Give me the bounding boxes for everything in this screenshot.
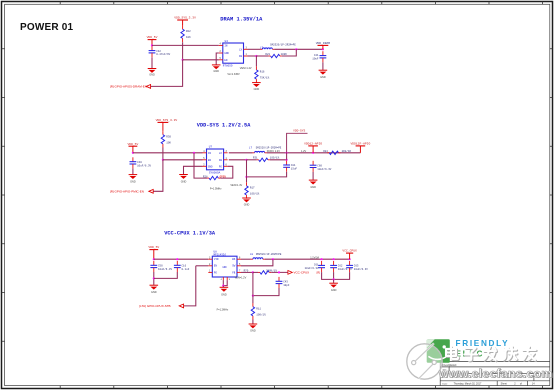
wire EN rail sec3 bbox=[196, 265, 209, 267]
wire U7 GND pin to ground bbox=[184, 166, 203, 174]
svg-text:PG: PG bbox=[219, 165, 223, 168]
svg-text:GND: GND bbox=[223, 266, 228, 269]
svg-text:IN: IN bbox=[208, 152, 212, 155]
svg-text:VCC_CPUX: VCC_CPUX bbox=[342, 250, 357, 253]
inductor L3 2.2uH bbox=[260, 48, 274, 49]
wire FB pin to divider node bbox=[248, 55, 257, 57]
svg-text:GND: GND bbox=[254, 88, 260, 91]
svg-text:VDD_SYS_3.3V: VDD_SYS_3.3V bbox=[156, 119, 178, 122]
U4 pin LX (3) bbox=[244, 48, 248, 50]
resistor R22 10K pullup bbox=[181, 26, 191, 42]
U7 pin PG (6) bbox=[224, 165, 228, 167]
svg-text:10K: 10K bbox=[186, 36, 191, 39]
resistor R24 2R2 bbox=[327, 151, 340, 154]
U8 pin PAD (9) bbox=[226, 277, 228, 280]
svg-text:VDD_DRAM: VDD_DRAM bbox=[316, 42, 331, 45]
watermark logo circle bbox=[407, 343, 442, 379]
U8 pin PG (1) bbox=[208, 271, 212, 273]
junction R31/C81 node bbox=[286, 159, 288, 161]
power symbol VDD12-APIO (C60) bbox=[304, 143, 322, 153]
junction FB sense tap sec1 bbox=[295, 48, 297, 50]
svg-text:FRIENDLY: FRIENDLY bbox=[456, 339, 510, 348]
wire R28 to PG pin bbox=[220, 166, 233, 178]
U8 pin VIN (3) bbox=[208, 258, 212, 260]
svg-text:IN: IN bbox=[224, 44, 228, 47]
ground below C50 bbox=[150, 285, 159, 294]
resistor R31 100 feedback bbox=[257, 158, 270, 161]
U4 pin FB (1) bbox=[244, 55, 248, 57]
svg-text:VDD-SYS: VDD-SYS bbox=[293, 130, 305, 133]
power symbol VDD_5V (sec1) bbox=[147, 36, 158, 45]
svg-text:EN: EN bbox=[224, 59, 228, 62]
wire FB rail sec2 bbox=[229, 159, 247, 161]
power symbol VDD12F-APIO bbox=[350, 143, 370, 153]
capacitor C50 10uF input bbox=[150, 261, 172, 272]
FriendlyELEC green logo square bbox=[427, 339, 450, 363]
watermark chinese characters bbox=[446, 347, 537, 361]
capacitor C40 10uF input bbox=[130, 157, 152, 168]
port GPIO-APIO-SYS enable bbox=[110, 189, 153, 193]
junction C16 tap bbox=[176, 258, 178, 260]
svg-text:GND: GND bbox=[208, 165, 213, 168]
wire inductor to output sec2 bbox=[267, 152, 361, 154]
svg-text:VDD_SYS_3.3V: VDD_SYS_3.3V bbox=[174, 17, 196, 20]
title block lines bbox=[440, 361, 550, 385]
wire C42 to GND bbox=[151, 57, 153, 68]
svg-text:EN: EN bbox=[214, 265, 218, 268]
wire FB node to R31 bbox=[247, 159, 257, 161]
ground below R11 bbox=[249, 324, 258, 332]
svg-text:DRAM 1.35V/1A: DRAM 1.35V/1A bbox=[220, 17, 263, 23]
wire C50 to GND bbox=[153, 272, 155, 285]
wire FB node to R21 bbox=[256, 55, 268, 57]
wire R30 bottom to EN node sec2 bbox=[162, 148, 164, 160]
junction SW sense tap bbox=[272, 258, 274, 260]
wire R11 to gnd bbox=[252, 320, 254, 324]
junction divider mid sec3 bbox=[252, 295, 254, 297]
svg-text:VDD-SYS 1.2V/2.5A: VDD-SYS 1.2V/2.5A bbox=[197, 122, 251, 128]
U8 pin FB (7) bbox=[237, 271, 241, 273]
wire C62 bottom bbox=[333, 272, 335, 279]
junction FB node sec1 bbox=[255, 55, 257, 57]
svg-text:Date:: Date: bbox=[442, 383, 448, 386]
wire inductor to output node sec3 bbox=[265, 258, 350, 260]
U4 pin GND (2) bbox=[219, 52, 223, 54]
ground below C60 bbox=[309, 180, 318, 189]
resistor R21 100K feedback bbox=[265, 53, 287, 58]
inductor L7 2.2uH bbox=[253, 151, 267, 152]
capacitor C81 15uF feedforward bbox=[283, 161, 297, 172]
wire EN rail sec2 bbox=[163, 159, 203, 161]
svg-text:15uF: 15uF bbox=[291, 168, 298, 171]
capacitor C62 10uF output bbox=[330, 261, 352, 272]
wire U8 ground node down bbox=[222, 286, 224, 288]
svg-text:1.1V/3A: 1.1V/3A bbox=[310, 257, 319, 260]
svg-text:VDD_5V: VDD_5V bbox=[148, 246, 159, 249]
svg-text:R24: R24 bbox=[323, 150, 328, 153]
ground below C41 bbox=[319, 70, 328, 79]
wire LX to inductor sec2 bbox=[229, 152, 253, 154]
wire SW to inductor sec3 bbox=[241, 258, 251, 260]
U8 pin names bbox=[214, 258, 236, 274]
svg-text:[R] GPIO-APIO-PMIC-EN: [R] GPIO-APIO-PMIC-EN bbox=[110, 189, 144, 193]
ground below U4 bbox=[212, 65, 221, 73]
svg-text:GND: GND bbox=[310, 186, 316, 189]
svg-text:F=1.2MHz: F=1.2MHz bbox=[217, 309, 229, 312]
svg-text:0.47uF/6V: 0.47uF/6V bbox=[156, 52, 170, 56]
ground below R16 bbox=[252, 83, 261, 91]
wire R31 to output tap bbox=[270, 159, 287, 161]
U7 pin FB (1) bbox=[224, 159, 228, 161]
svg-text:FB: FB bbox=[239, 55, 243, 58]
junction EN node sec1 bbox=[182, 59, 184, 61]
svg-text:SW: SW bbox=[232, 265, 236, 268]
resistor R16 75K bbox=[255, 66, 270, 82]
junction C62 tap bbox=[333, 258, 335, 260]
svg-text:GND: GND bbox=[331, 289, 337, 292]
svg-text:10uF: 10uF bbox=[312, 57, 319, 60]
svg-text:VDD_5V: VDD_5V bbox=[147, 36, 158, 39]
svg-text:GND: GND bbox=[224, 52, 229, 55]
wire C81 bottom to divider bbox=[247, 172, 287, 177]
wire output tap vertical bbox=[286, 153, 288, 160]
ground below output caps bbox=[329, 283, 338, 292]
svg-text:of: of bbox=[520, 383, 522, 386]
U8 pin EN (2) bbox=[208, 265, 212, 267]
capacitor C60 10uF output bbox=[310, 161, 332, 172]
svg-text:10pF: 10pF bbox=[283, 284, 290, 287]
wire U8 pad pin join bbox=[223, 280, 227, 286]
svg-text:L7: L7 bbox=[249, 147, 253, 150]
svg-text:2R2/1R: 2R2/1R bbox=[342, 149, 352, 153]
junction VDD_5V / IN wire sec2 bbox=[132, 152, 134, 154]
ground below U7 bbox=[179, 175, 188, 184]
svg-text:VEN=1.4V: VEN=1.4V bbox=[230, 184, 242, 187]
junction R28 pullup tap bbox=[193, 152, 195, 154]
capacitor C41 10uF output bbox=[312, 51, 326, 62]
svg-text:RT8059: RT8059 bbox=[223, 64, 233, 67]
wire FB node down to R16 bbox=[255, 56, 257, 66]
svg-text:FB: FB bbox=[232, 271, 236, 274]
U7 pin GND (2) bbox=[203, 165, 207, 167]
power symbol VDD_5V (sec3) bbox=[148, 246, 159, 259]
junction divider mid node bbox=[245, 176, 247, 178]
svg-text:GND: GND bbox=[320, 76, 326, 79]
wire IN rail sec2 bbox=[133, 152, 203, 154]
svg-text:C41: C41 bbox=[314, 54, 319, 57]
wire FB node down bbox=[246, 160, 248, 177]
svg-text:R70: R70 bbox=[244, 270, 249, 273]
junction C60 tap bbox=[312, 152, 314, 154]
svg-text:VDD12F-APIO: VDD12F-APIO bbox=[350, 143, 370, 146]
svg-text:VEN=1.4V: VEN=1.4V bbox=[240, 67, 252, 70]
wire U8 ground pins join bbox=[222, 280, 224, 286]
capacitor C16 0.1uF input bbox=[174, 261, 190, 272]
wire inductor to output node sec1 bbox=[274, 48, 323, 50]
U7 pin names bbox=[208, 152, 222, 168]
svg-text:[LTA] GPIO-CPUX-STB: [LTA] GPIO-CPUX-STB bbox=[139, 304, 170, 308]
svg-text:GND: GND bbox=[130, 181, 136, 184]
svg-text:Thursday, March 02, 2017: Thursday, March 02, 2017 bbox=[454, 383, 482, 386]
regulator U7 SY8089A body bbox=[207, 149, 224, 170]
U7 pin LX (3) bbox=[224, 152, 228, 154]
power symbol VDD_DRAM bbox=[316, 42, 331, 49]
resistor R70 200K feedback bbox=[258, 271, 271, 274]
wire C60 to GND bbox=[312, 172, 314, 180]
inductor L8 2.2uH bbox=[251, 258, 265, 259]
wire EN rail sec1 bbox=[183, 59, 219, 61]
resistor R30 10K pullup bbox=[161, 131, 171, 147]
U4 pin names bbox=[224, 44, 242, 61]
U4 pin IN (4) bbox=[219, 44, 223, 46]
wire LX to inductor bbox=[248, 48, 261, 50]
svg-text:POWER 01: POWER 01 bbox=[20, 22, 74, 33]
resistor R17 100 1% bbox=[245, 182, 260, 198]
power symbol VDD_5V (sec2) bbox=[127, 143, 138, 153]
svg-text:100/1%: 100/1% bbox=[270, 155, 280, 159]
ground below C42 bbox=[148, 69, 157, 77]
junction VDD-SYS label tap bbox=[286, 152, 288, 154]
wire FB node to R70 bbox=[253, 271, 258, 273]
resistor R28 open pullup bbox=[207, 176, 220, 179]
U7 pin EN (5) bbox=[203, 159, 207, 161]
svg-text:R17: R17 bbox=[250, 186, 255, 189]
svg-text:Sheet: Sheet bbox=[501, 383, 508, 386]
wire EN node down to port sec2 bbox=[153, 160, 163, 192]
svg-text:10K: 10K bbox=[166, 141, 171, 144]
capacitor C42 0.47uF bbox=[149, 46, 171, 57]
svg-text:VCC-CPUX 1.1V/3A: VCC-CPUX 1.1V/3A bbox=[164, 231, 216, 237]
title block texts bbox=[442, 364, 541, 386]
junction C43 tap bbox=[278, 271, 280, 273]
svg-text:LX: LX bbox=[219, 152, 223, 155]
svg-text:R28: R28 bbox=[203, 175, 208, 178]
wire divider to R11 bbox=[252, 296, 254, 304]
svg-text:10uF/6.3V: 10uF/6.3V bbox=[354, 267, 368, 271]
svg-text:GND: GND bbox=[221, 294, 227, 297]
wire FB rail sec3 bbox=[241, 271, 253, 273]
svg-text:LX: LX bbox=[239, 48, 243, 51]
svg-text:0.1uF: 0.1uF bbox=[182, 268, 190, 271]
svg-text:EN: EN bbox=[208, 159, 212, 162]
U7 pin IN (4) bbox=[203, 152, 207, 154]
svg-text:DM2520/1P-2R2M=PE: DM2520/1P-2R2M=PE bbox=[256, 253, 282, 256]
wire EN down to port sec3 bbox=[184, 266, 196, 306]
junction VDD_5V / IN wire sec3 bbox=[153, 258, 155, 260]
wire output caps bottom rail bbox=[322, 272, 350, 279]
wire divider node to R17 bbox=[246, 177, 248, 182]
net label VDD-SYS with stub bbox=[287, 130, 308, 153]
junction output node sec1 bbox=[322, 48, 324, 50]
wire C40 to GND bbox=[132, 168, 134, 174]
svg-text:75K/1%: 75K/1% bbox=[260, 76, 270, 80]
svg-text:10uF/6.3V: 10uF/6.3V bbox=[158, 267, 172, 271]
svg-text:100/1%: 100/1% bbox=[250, 191, 260, 195]
U8 pin GND (4) bbox=[222, 277, 224, 280]
svg-text:GND: GND bbox=[250, 329, 256, 332]
wire IN rail sec1 bbox=[152, 44, 219, 46]
svg-text:F=1.5MHz: F=1.5MHz bbox=[210, 187, 222, 190]
svg-text:100/1%: 100/1% bbox=[256, 312, 266, 316]
ground below C40 bbox=[129, 175, 138, 184]
svg-text:VDD12-APIO: VDD12-APIO bbox=[304, 143, 322, 146]
svg-text:R16: R16 bbox=[260, 71, 265, 74]
junction FB node sec3 bbox=[252, 271, 254, 273]
wire U4 GND pin to ground bbox=[216, 53, 219, 65]
port VCC-CPUX output sense bbox=[288, 271, 320, 275]
wire R21 to sense tap bbox=[282, 49, 297, 56]
wire C41 to GND bbox=[322, 62, 324, 70]
ground below R17 bbox=[242, 198, 251, 206]
junction C63/power tap bbox=[349, 258, 351, 260]
svg-text:R30: R30 bbox=[166, 135, 171, 138]
svg-text:VCC-CPUX: VCC-CPUX bbox=[294, 271, 310, 275]
svg-text:U7: U7 bbox=[209, 145, 213, 148]
U8 pin VOS (5) bbox=[237, 265, 241, 267]
wire EN node down to port bbox=[151, 60, 183, 87]
svg-text:C61: C61 bbox=[314, 264, 319, 267]
power symbol VCC_CPUX bbox=[342, 250, 357, 260]
wire R70 to output sense bbox=[271, 271, 288, 273]
wire C43 bottom to divider bbox=[253, 288, 279, 296]
wire IN rail sec3 bbox=[154, 258, 209, 260]
regulator U8 MP2143DJ body bbox=[212, 256, 237, 277]
svg-text:DM2520/1P-2R2M=PE: DM2520/1P-2R2M=PE bbox=[270, 43, 296, 46]
svg-text:VEN=1.2V: VEN=1.2V bbox=[235, 276, 247, 279]
svg-text:GND: GND bbox=[244, 203, 250, 206]
svg-text:10uF/6.3V: 10uF/6.3V bbox=[137, 163, 151, 167]
svg-text:www.elecfans.com: www.elecfans.com bbox=[438, 366, 553, 380]
svg-text:FB: FB bbox=[219, 159, 223, 162]
capacitor C43 feedforward bbox=[276, 277, 290, 288]
svg-text:[R] GPIO-APIO5-DRAM-EN: [R] GPIO-APIO5-DRAM-EN bbox=[110, 85, 147, 89]
U4 pin EN (5) bbox=[219, 59, 223, 61]
port GPIO-CPUX-STB enable bbox=[139, 304, 183, 308]
wire caps gnd node down bbox=[333, 279, 335, 283]
svg-text:VDD_5V: VDD_5V bbox=[127, 143, 138, 146]
ground below U8 bbox=[220, 287, 229, 296]
svg-text:BS: BS bbox=[232, 258, 236, 261]
capacitor C61 10uF output bbox=[305, 261, 325, 272]
svg-text:GND: GND bbox=[181, 180, 187, 183]
svg-text:R22: R22 bbox=[186, 30, 191, 33]
capacitor C63 10uF output bbox=[346, 261, 368, 272]
svg-text:DCDC 1.2V: DCDC 1.2V bbox=[267, 150, 280, 153]
svg-text:GND: GND bbox=[213, 70, 219, 73]
U8 pin SW (8) bbox=[237, 258, 241, 260]
svg-text:PG: PG bbox=[214, 271, 218, 274]
svg-text:GND: GND bbox=[149, 73, 155, 76]
svg-text:10uF/6.3V: 10uF/6.3V bbox=[317, 167, 331, 171]
power symbol VDD_SYS_3.3V (sec1) bbox=[174, 17, 196, 26]
junction C61 tap bbox=[321, 258, 323, 260]
port GPIO-APIO5-DRAM enable bbox=[110, 85, 151, 89]
op-amp/regulator U4 RT8059 body bbox=[223, 43, 244, 63]
junction FB node sec2 bbox=[245, 159, 247, 161]
wire C16 bottom join bbox=[154, 272, 178, 278]
wire R22 bottom to EN node bbox=[182, 42, 184, 60]
svg-text:[R]: [R] bbox=[317, 271, 321, 275]
svg-text:R21: R21 bbox=[265, 53, 270, 56]
junction VDD_5V / IN wire sec1 bbox=[151, 44, 153, 46]
power symbol VDD_SYS_3.3V (sec2) bbox=[156, 119, 178, 131]
resistor R11 100 1% bbox=[251, 303, 266, 319]
svg-text:MP2143DJ: MP2143DJ bbox=[214, 253, 227, 256]
junction caps common sec3 bbox=[153, 277, 155, 279]
svg-text:R11: R11 bbox=[256, 307, 261, 310]
svg-text:R31: R31 bbox=[253, 156, 258, 159]
wire FB node down sec3 bbox=[252, 272, 254, 295]
wire R28 from IN rail bbox=[194, 153, 207, 178]
svg-text:L8: L8 bbox=[250, 253, 254, 256]
svg-text:1.2V: 1.2V bbox=[301, 150, 306, 153]
svg-text:Vo=1.345V: Vo=1.345V bbox=[227, 73, 240, 76]
svg-text:VIN: VIN bbox=[214, 258, 219, 261]
junction U8 ground node bbox=[222, 285, 224, 287]
junction caps gnd node sec3 bbox=[333, 278, 335, 280]
wire VOS sense loop bbox=[241, 259, 273, 266]
junction EN node sec2 bbox=[162, 159, 164, 161]
svg-text:GND: GND bbox=[151, 291, 157, 294]
svg-text:SY8089A: SY8089A bbox=[209, 171, 221, 174]
svg-text:U4: U4 bbox=[225, 40, 229, 43]
